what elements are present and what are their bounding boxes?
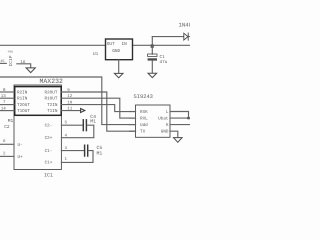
svg-text:U-: U-: [18, 143, 23, 148]
wire K to right edge: [170, 124, 190, 126]
wire C1 bottom stub: [151, 61, 153, 74]
svg-text:C1+: C1+: [45, 161, 53, 166]
svg-text:RXL: RXL: [140, 117, 148, 122]
wire pin 5 C2- to cap C4: [61, 124, 82, 126]
wire pin 10 T2IN to Si9243 RXK row: [61, 105, 135, 112]
ground Si9243: [174, 138, 183, 143]
regulator U1 box: [106, 39, 133, 60]
wire vertical up to diode line: [151, 37, 153, 46]
pin stub TX: [130, 130, 136, 132]
wire pin 2 V+: [0, 155, 14, 157]
capacitor C1 47u polarized: [148, 54, 157, 56]
svg-text:SI9243: SI9243: [134, 94, 153, 100]
wire GND pin to ground: [170, 131, 178, 137]
svg-text:K: K: [166, 123, 169, 128]
wire C1 top stub: [151, 45, 153, 54]
node junction dot at C1 tap: [151, 44, 154, 47]
wire pin 16: [17, 64, 31, 68]
capacitor C5: [85, 145, 88, 156]
svg-text:L: L: [166, 110, 169, 115]
ground regulator: [114, 73, 123, 77]
wire C5 to C1+ loop: [61, 151, 93, 163]
wire diode anode line: [152, 36, 184, 38]
wire pin 12 R1OUT to Si9243 RXL row: [61, 98, 135, 118]
svg-text:14: 14: [1, 106, 7, 111]
svg-text:U1: U1: [93, 52, 99, 57]
svg-text:T2OUT: T2OUT: [17, 103, 30, 108]
svg-text:R2OUT: R2OUT: [45, 90, 58, 95]
wire pin 7 T2OUT: [0, 104, 14, 106]
wire Ubat to right edge: [170, 117, 190, 119]
svg-text:OUT: OUT: [107, 42, 115, 47]
pin 15 stub: [0, 62, 6, 64]
wire C4 to C2+ loop: [61, 125, 93, 138]
ground IC1P: [26, 68, 35, 73]
svg-text:C5: C5: [97, 145, 103, 151]
svg-text:GND: GND: [112, 49, 120, 54]
svg-text:M1: M1: [90, 119, 96, 125]
svg-text:1: 1: [65, 157, 68, 162]
wire pin 3 C1- to cap C5: [61, 150, 83, 152]
svg-text:M1: M1: [97, 150, 103, 156]
node junction L/Ubat: [187, 117, 189, 119]
wire regulator GND stub: [118, 60, 120, 74]
wire pin 14 T1OUT: [0, 110, 14, 112]
pin stub RXL: [130, 117, 136, 119]
wire pin 6 V-: [0, 143, 14, 145]
svg-text:R2IN: R2IN: [17, 90, 28, 95]
svg-text:IN: IN: [122, 42, 128, 47]
svg-text:RXK: RXK: [140, 110, 148, 115]
svg-text:Ubat: Ubat: [158, 116, 169, 122]
svg-text:C1-: C1-: [45, 149, 53, 154]
svg-text:IC1P: IC1P: [8, 55, 14, 66]
svg-text:IC1: IC1: [44, 172, 53, 178]
wire L to right edge: [170, 112, 189, 119]
svg-text:6: 6: [3, 139, 6, 144]
wire pin 13 R1IN: [0, 97, 14, 99]
capacitor C4: [83, 120, 86, 131]
svg-text:R1OUT: R1OUT: [45, 97, 58, 102]
wire pin 9 R2OUT to Si9243 Udd row: [61, 92, 135, 131]
svg-text:13: 13: [1, 94, 7, 99]
pin stub Udd: [130, 124, 136, 126]
svg-text:12: 12: [67, 94, 73, 99]
op-amp IC1 MAX232 outer box: [14, 85, 61, 170]
svg-text:47u: 47u: [160, 60, 168, 65]
svg-text:TX: TX: [140, 130, 146, 135]
svg-text:T1IN: T1IN: [47, 109, 58, 114]
svg-text:10: 10: [67, 100, 73, 105]
wire pin 11 T1IN stub: [61, 110, 80, 112]
svg-text:T1OUT: T1OUT: [17, 109, 30, 114]
svg-text:C2-: C2-: [45, 124, 53, 129]
pin stub RXK: [130, 111, 136, 113]
svg-text:MAX232: MAX232: [40, 78, 64, 85]
IC U2 Si9243 box: [136, 105, 171, 137]
svg-text:15: 15: [0, 59, 4, 64]
wire VCC top horizontal to regulator OUT: [0, 44, 106, 46]
wire VCC2 long horizontal down to Si9243 TX row: [0, 77, 136, 125]
svg-text:M1: M1: [8, 119, 14, 124]
svg-text:GND: GND: [161, 130, 169, 135]
arrow on T1IN wire: [81, 109, 85, 113]
svg-text:1N40: 1N40: [179, 22, 191, 29]
wire pin 8 R2IN: [0, 91, 14, 93]
diode D1 1N4007: [184, 33, 190, 40]
svg-text:T2IN: T2IN: [47, 103, 58, 108]
svg-text:+5U: +5U: [8, 50, 14, 53]
svg-text:C2+: C2+: [45, 136, 53, 141]
ground C1: [148, 73, 157, 77]
MAX232 inner thick rect: [15, 87, 62, 116]
svg-text:U+: U+: [18, 155, 24, 160]
wire regulator IN to right edge: [133, 44, 191, 46]
svg-text:11: 11: [67, 107, 73, 112]
svg-text:C2: C2: [4, 124, 10, 130]
svg-text:Udd: Udd: [140, 122, 148, 128]
svg-text:R1IN: R1IN: [17, 97, 28, 102]
